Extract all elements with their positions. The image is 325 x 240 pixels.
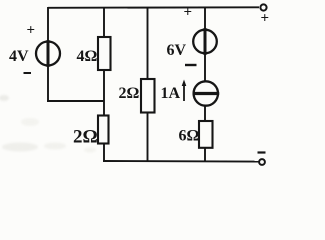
resistor R2 2-ohm (lower left) (98, 116, 109, 144)
svg-text:4Ω: 4Ω (77, 48, 98, 65)
terminal a (top right, open circle) (260, 4, 266, 10)
resistor R3 2-ohm (middle) (141, 79, 155, 113)
wire middle 2-ohm branch (147, 8, 149, 161)
wire bottom connector of 4V loop (47, 100, 104, 102)
label - of 4V (24, 72, 32, 74)
label - at bottom terminal (258, 151, 266, 153)
terminal b (bottom right, open circle) (259, 159, 265, 165)
resistor R4 6-ohm (199, 121, 213, 148)
wire top rail (48, 6, 259, 9)
current source I1 (193, 81, 220, 105)
label + of 4V (27, 23, 36, 39)
svg-text:+: + (261, 11, 270, 27)
label 1A (161, 85, 181, 102)
svg-text:2Ω: 2Ω (119, 85, 140, 102)
label 4V (9, 48, 29, 65)
label 4-ohm (77, 48, 98, 65)
label 2-ohm (middle) (119, 85, 140, 102)
label + at top terminal (261, 11, 270, 27)
label - of 6V (185, 64, 197, 66)
voltage source V1 4V (36, 40, 60, 67)
arrow current direction up (182, 80, 187, 102)
resistor R1 4-ohm (98, 37, 111, 70)
voltage source V2 6V (193, 28, 217, 55)
svg-text:+: + (184, 5, 193, 21)
wire bottom rail (103, 160, 260, 163)
label + of 6V (184, 5, 193, 21)
label 2-ohm (lower left) (73, 127, 98, 148)
wire left branch (4V source branch) (47, 7, 49, 101)
wire right source branch (204, 8, 206, 161)
svg-text:6V: 6V (167, 42, 187, 59)
wire 4-ohm/2-ohm branch (103, 8, 105, 161)
svg-text:6Ω: 6Ω (179, 128, 200, 145)
svg-text:2Ω: 2Ω (73, 127, 98, 148)
svg-text:1A: 1A (161, 85, 181, 102)
svg-text:4V: 4V (9, 48, 29, 65)
svg-text:+: + (27, 23, 36, 39)
label 6V (167, 42, 187, 59)
label 6-ohm (179, 128, 200, 145)
